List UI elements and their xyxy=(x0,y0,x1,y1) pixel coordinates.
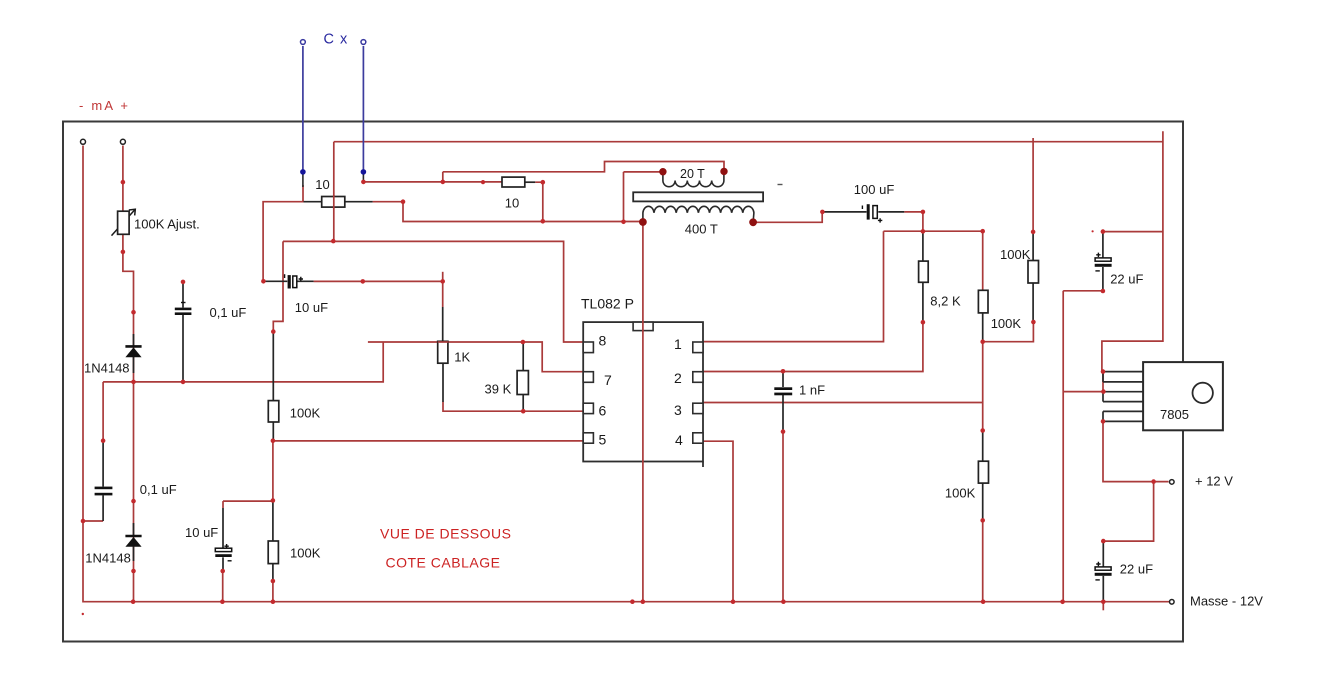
svg-text:3: 3 xyxy=(674,402,682,418)
svg-text:C x: C x xyxy=(324,32,349,48)
svg-text:400 T: 400 T xyxy=(685,222,718,237)
svg-text:7: 7 xyxy=(604,372,612,388)
svg-text:7805: 7805 xyxy=(1160,407,1189,422)
svg-text:TL082 P: TL082 P xyxy=(581,296,634,312)
svg-text:10: 10 xyxy=(315,177,329,192)
svg-text:8: 8 xyxy=(599,333,607,349)
svg-text:100K: 100K xyxy=(945,486,976,501)
svg-text:39 K: 39 K xyxy=(485,382,512,397)
svg-text:10 uF: 10 uF xyxy=(185,525,218,540)
svg-text:100K Ajust.: 100K Ajust. xyxy=(134,217,200,232)
svg-text:5: 5 xyxy=(599,432,607,448)
svg-text:2: 2 xyxy=(674,370,682,386)
svg-text:1K: 1K xyxy=(454,350,470,365)
svg-text:22 uF: 22 uF xyxy=(1110,272,1143,287)
svg-text:1N4148: 1N4148 xyxy=(85,551,131,566)
svg-text:100K: 100K xyxy=(991,316,1022,331)
svg-text:100 uF: 100 uF xyxy=(854,182,895,197)
svg-text:20 T: 20 T xyxy=(680,167,705,181)
svg-text:22 uF: 22 uF xyxy=(1120,562,1153,577)
svg-text:1 nF: 1 nF xyxy=(799,383,825,398)
svg-text:0,1 uF: 0,1 uF xyxy=(140,482,177,497)
svg-text:10: 10 xyxy=(505,196,519,211)
svg-text:0,1 uF: 0,1 uF xyxy=(210,305,247,320)
svg-text:+ 12 V: + 12 V xyxy=(1195,474,1233,489)
svg-text:6: 6 xyxy=(599,403,607,419)
svg-text:COTE CABLAGE: COTE CABLAGE xyxy=(386,555,501,571)
svg-text:100K: 100K xyxy=(290,406,321,421)
svg-text:8,2 K: 8,2 K xyxy=(930,294,961,309)
svg-text:100K: 100K xyxy=(1000,247,1031,262)
svg-text:Masse - 12V: Masse - 12V xyxy=(1190,594,1263,609)
svg-text:1N4148: 1N4148 xyxy=(84,361,130,376)
svg-text:10 uF: 10 uF xyxy=(295,300,328,315)
svg-text:100K: 100K xyxy=(290,546,321,561)
svg-text:VUE DE DESSOUS: VUE DE DESSOUS xyxy=(380,526,511,542)
svg-text:4: 4 xyxy=(675,432,683,448)
svg-text:1: 1 xyxy=(674,336,682,352)
svg-text:- mA +: - mA + xyxy=(79,98,130,113)
